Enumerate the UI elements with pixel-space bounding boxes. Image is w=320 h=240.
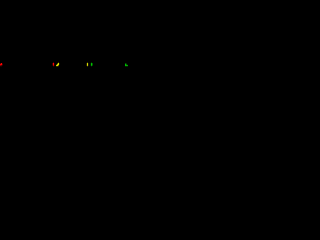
sprite: green vertical bar (90, 62, 93, 67)
background (0, 0, 128, 128)
sprite: yellow crescent (56, 62, 60, 67)
sprite: yellow vertical bar (86, 62, 89, 67)
sprite: red corner shape at left edge (0, 63, 3, 67)
sprite: green L shape at right edge (125, 63, 128, 67)
sprite: red vertical bar (52, 62, 55, 67)
